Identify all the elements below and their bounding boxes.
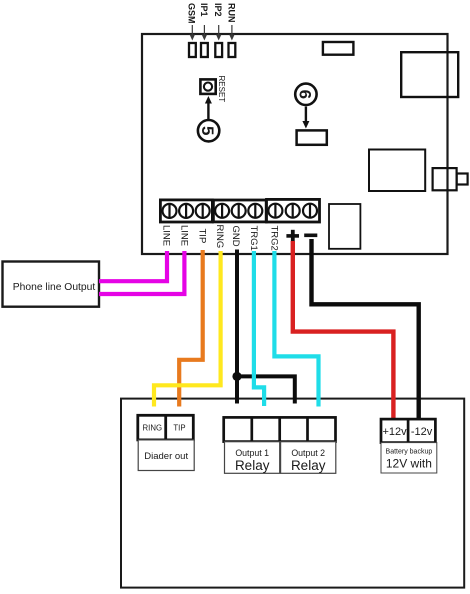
label IP1 [199,3,209,41]
svg-text:IP1: IP1 [199,3,209,17]
svg-text:IP2: IP2 [213,3,223,17]
battery backup label box [381,443,437,473]
antenna module block top right [401,52,458,97]
LED IP1 [201,43,208,57]
svg-text:6: 6 [295,90,314,99]
wire TRG2 to output2 (cyan) [274,251,318,407]
svg-text:+12v: +12v [383,426,408,438]
pin label - (minus) [304,234,317,238]
wire RING to dialer out (yellow) [154,251,221,407]
svg-text:RESET: RESET [217,76,226,103]
terminal block TB3 (TRG2 + -) [267,199,320,222]
wire LINE1 to phone box (magenta) [99,251,167,281]
svg-text:TIP: TIP [173,424,185,433]
svg-text:TIP: TIP [197,229,208,244]
wire + to +12v (red) [293,241,394,421]
svg-text:LINE: LINE [178,225,189,246]
battery terminal block (+12v -12v) [381,419,435,443]
wire - to -12v (black) [312,239,419,422]
terminal block TB1 (LINE LINE TIP) [160,200,212,222]
label RUN [226,3,236,41]
component block bottom [329,204,360,249]
arrow from callout 5 to reset button [205,96,212,119]
dialer out label box [138,440,194,471]
svg-text:5: 5 [198,126,217,135]
svg-text:GND: GND [230,226,241,247]
LED IP2 [215,43,222,57]
svg-text:Relay: Relay [235,458,270,473]
svg-text:Output 1: Output 1 [235,448,269,458]
relay output terminal block (4 positions) [224,417,336,441]
terminal block TB2 (RING GND TRG1) [213,200,266,222]
wire GND branch to output2 (black) [237,376,295,403]
junction GND [232,372,241,381]
reset button SW1 [200,79,215,94]
wire TRG1 to output1 (cyan) [254,251,264,406]
svg-text:Battery backup: Battery backup [386,449,433,456]
svg-text:GSM: GSM [187,3,197,24]
callout 5 [198,120,219,141]
dialer terminal block (RING TIP) [138,415,194,440]
alarm panel box (bottom unit) [121,399,464,588]
svg-text:RING: RING [143,424,163,433]
callout 6 [295,84,316,105]
label IP2 [213,3,223,41]
wire LINE2 to phone box (magenta) [99,251,184,294]
svg-text:RUN: RUN [226,3,236,23]
output 2 relay label box [281,442,336,474]
jumper block J6 [297,130,327,144]
main control board U1 [142,34,448,254]
label GSM [187,3,197,41]
svg-text:12V with: 12V with [386,457,432,471]
wire GND to output1 (black) [235,250,239,404]
svg-text:Relay: Relay [291,458,326,473]
LED GSM [189,43,196,57]
svg-text:LINE: LINE [160,225,171,246]
svg-text:Phone line Output: Phone line Output [13,282,96,293]
output 1 relay label box [225,442,280,474]
component block top middle [323,42,354,55]
pin label + (plus) [286,230,299,242]
svg-text:Output 2: Output 2 [291,448,325,458]
svg-text:RING: RING [214,225,225,249]
svg-text:Diader out: Diader out [144,451,188,462]
LED RUN [229,43,236,57]
svg-text:-12v: -12v [411,426,433,438]
power jack block right edge [433,168,468,190]
svg-text:TRG2: TRG2 [268,226,279,251]
arrow from callout 6 to jumper block [302,107,309,129]
phone line output box [3,262,100,307]
svg-text:TRG1: TRG1 [248,226,259,251]
relay block mid right [369,150,425,192]
wire TIP to dialer out (orange) [179,250,203,407]
